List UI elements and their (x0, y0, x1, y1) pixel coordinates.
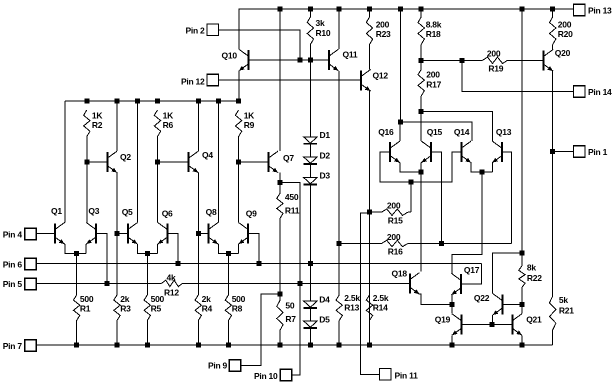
junction R16 left node (337, 241, 342, 246)
resistor R3 2k (114, 295, 120, 321)
junction D5 ground (308, 342, 313, 347)
wire Q16 emitter (400, 163, 421, 172)
resistor R12 4k (162, 280, 183, 286)
transistor Q19 (452, 314, 462, 336)
resistor R16 200 (382, 240, 408, 246)
junction Q5/Q6 emitters (145, 251, 150, 256)
wire R16 node to R13 (338, 244, 340, 296)
junction R4 ground (196, 342, 201, 347)
junction Q5 base node (115, 231, 120, 236)
diode D2 (304, 157, 318, 164)
wire D2-D3 (309, 164, 311, 178)
wire Pin 6 net (36, 263, 481, 265)
junction Q19 emitter ground (449, 342, 454, 347)
wire R2 bottom (86, 137, 88, 162)
wire Q3 emitter drop (85, 244, 87, 254)
junction Q2 base node (84, 159, 89, 164)
wire Q10 collector riser (238, 9, 240, 49)
transistor Q18 (410, 273, 420, 295)
wire R7 top (279, 294, 281, 301)
junction R20 top (550, 7, 555, 12)
wire Pin11 riser to R15 node (361, 213, 380, 374)
wire Q10 emitter drop (238, 71, 240, 101)
wire top supply rail (239, 8, 574, 10)
svg-text:R15: R15 (388, 216, 403, 226)
svg-text:R4: R4 (202, 304, 213, 314)
junction Pin9/R7 node (277, 291, 282, 296)
resistor R10 3k (307, 17, 313, 45)
wire bottom ground rail (37, 344, 553, 346)
junction Pin1/Q20 emitter (550, 149, 555, 154)
svg-text:Q17: Q17 (464, 265, 480, 275)
junction R22/Q22 base/Q21 collector (519, 302, 524, 307)
wire Q16-Q14 base bracket (380, 152, 461, 182)
junction R23 top (367, 7, 372, 12)
wire Pin10 riser (292, 283, 300, 375)
svg-text:Q14: Q14 (454, 127, 470, 137)
wire Q6 collector riser (157, 162, 159, 223)
wire Q22 emitter drop (491, 315, 493, 324)
wire mirror feed drop (399, 9, 401, 122)
wire R15 left stub (370, 211, 382, 213)
wire R10 top stub (309, 9, 311, 17)
pin box Pin 1 (574, 146, 586, 158)
transistor Q6 (158, 223, 168, 245)
junction base bracket / R15 (408, 179, 413, 184)
pin box Pin 13 (574, 4, 586, 16)
svg-text:200: 200 (387, 201, 401, 211)
svg-text:R14: R14 (373, 303, 388, 313)
svg-text:D1: D1 (320, 130, 331, 140)
diode D5 (304, 321, 318, 328)
wire R4 bottom (197, 321, 199, 345)
junction Q4 collector rail (196, 98, 201, 103)
wire R15 right stub (408, 211, 411, 213)
wire R20 top stub (552, 9, 554, 17)
wire R18 node to R19 (421, 59, 482, 61)
wire R7 bottom (279, 331, 281, 345)
junction Q21 emitter ground (519, 342, 524, 347)
wire Q17 base to Pin6 net (461, 264, 481, 285)
svg-text:R23: R23 (376, 29, 391, 39)
junction Q1/Q3 emitters (74, 251, 79, 256)
svg-text:Q21: Q21 (526, 314, 542, 324)
wire R8 bottom (227, 321, 229, 345)
svg-text:Pin 6: Pin 6 (3, 259, 23, 269)
resistor R2 1K (84, 110, 90, 137)
transistor Q10 (239, 49, 249, 71)
svg-text:R9: R9 (244, 120, 255, 130)
wire Q1/Q3 emitter bowl (65, 244, 86, 254)
wire R17 bottom stub (420, 96, 422, 112)
junction R2 top (84, 98, 89, 103)
svg-text:Q6: Q6 (162, 209, 173, 219)
resistor R21 5k (550, 296, 556, 330)
wire Q19-Q21 base line (462, 324, 513, 326)
svg-text:1K: 1K (163, 111, 174, 121)
transistor Q4 (189, 151, 199, 173)
wire Q21 emitter to ground (521, 335, 523, 345)
svg-text:D5: D5 (319, 314, 330, 324)
svg-text:500: 500 (151, 294, 165, 304)
wire to Q22 collector (492, 253, 522, 294)
junction diode chain on Pin6 net (308, 261, 313, 266)
wire Q15 collector riser (420, 112, 422, 142)
svg-text:Pin 9: Pin 9 (208, 360, 228, 370)
junction Q15 base on R16 line (439, 241, 444, 246)
diode D3 (304, 178, 318, 185)
svg-text:R12: R12 (164, 288, 179, 298)
resistor R17 200 (418, 70, 424, 97)
junction Q7 base node (236, 159, 241, 164)
wire Q2 base (87, 161, 108, 163)
junction Q16/Q15 emitters (419, 170, 424, 175)
wire R6 bottom (157, 137, 159, 162)
svg-text:8k: 8k (527, 263, 536, 273)
svg-text:Pin 2: Pin 2 (185, 26, 205, 36)
svg-text:Pin 1: Pin 1 (588, 147, 608, 157)
svg-text:200: 200 (558, 19, 572, 29)
wire R18 top stub (420, 9, 422, 17)
resistor R23 200 (366, 17, 372, 45)
pin box Pin 2 (207, 24, 219, 36)
transistor Q16 (390, 141, 400, 163)
junction Q2 collector rail (115, 98, 120, 103)
pin box Pin 14 (574, 86, 586, 98)
svg-text:R5: R5 (151, 304, 162, 314)
wire R20 to Q20 collector (552, 45, 554, 50)
junction Q8/Q9 emitters (226, 251, 231, 256)
svg-text:Pin 5: Pin 5 (3, 279, 23, 289)
wire Q13 base drop (502, 152, 512, 244)
wire Q5 base (117, 232, 128, 234)
wire Pin14 to R19 node (462, 60, 574, 91)
junction Q5 collector rail (135, 98, 140, 103)
wire Q7 emitter (279, 173, 281, 183)
wire Q22 base to R22 node (502, 303, 522, 305)
junction Q11 collector rail (337, 7, 342, 12)
wire Q16 collector riser (399, 122, 401, 141)
wire Q19 emitter to ground (451, 335, 453, 345)
svg-text:3k: 3k (316, 18, 325, 28)
resistor R15 200 (382, 209, 408, 215)
wire R17 top stub (420, 60, 422, 69)
wire R15 right riser (410, 182, 412, 212)
junction Q6 base on Pin6 (175, 261, 180, 266)
svg-text:Q19: Q19 (435, 314, 451, 324)
svg-text:Q9: Q9 (246, 209, 257, 219)
svg-text:Q12: Q12 (373, 71, 389, 81)
svg-text:Q16: Q16 (378, 127, 394, 137)
wire R11 to R7 (279, 219, 281, 294)
svg-text:450: 450 (285, 192, 299, 202)
svg-text:D2: D2 (320, 150, 331, 160)
svg-text:Q10: Q10 (222, 51, 238, 61)
svg-text:200: 200 (487, 49, 501, 59)
svg-text:Q3: Q3 (88, 206, 99, 216)
svg-text:R21: R21 (559, 305, 574, 315)
transistor Q11 (329, 49, 339, 71)
wire Q2 emitter to R3 (116, 233, 118, 295)
svg-text:50: 50 (285, 301, 294, 311)
wire to R1 (76, 254, 78, 295)
svg-text:Pin 12: Pin 12 (181, 77, 205, 87)
wire Q4 emitter to R4 (197, 233, 199, 295)
junction Q14/Q13 emitters (480, 170, 485, 175)
wire Q4 emitter drop (197, 173, 199, 234)
wire D1-D2 (309, 144, 311, 157)
wire R9 bottom (238, 137, 240, 162)
svg-text:Q13: Q13 (496, 127, 512, 137)
svg-text:Pin 13: Pin 13 (588, 6, 612, 16)
svg-text:Q2: Q2 (120, 152, 131, 162)
svg-text:Q5: Q5 (122, 207, 133, 217)
pin box Pin 4 (25, 228, 37, 240)
pin box Pin 11 (380, 369, 392, 381)
transistor Q2 (107, 151, 117, 173)
wire Q11 emitter long drop (338, 71, 340, 244)
svg-text:Pin 11: Pin 11 (395, 370, 419, 380)
junction R14 ground (367, 342, 372, 347)
wire to R14 (369, 212, 371, 345)
svg-text:R8: R8 (232, 304, 243, 314)
resistor R7 50 (277, 301, 283, 331)
wire Pin2 to Q10/Q11 base (219, 30, 300, 60)
svg-text:R17: R17 (426, 80, 441, 90)
wire Q4 base (158, 161, 189, 163)
svg-text:R20: R20 (558, 29, 573, 39)
wire Q9 base to Pin6 net (248, 233, 259, 263)
svg-text:R6: R6 (163, 120, 174, 130)
svg-text:500: 500 (80, 294, 94, 304)
wire Q15-Q13 collector line (421, 112, 492, 142)
junction R9 top / Q10 emitter (236, 98, 241, 103)
svg-text:R13: R13 (344, 303, 359, 313)
svg-text:R19: R19 (488, 64, 503, 74)
svg-text:R7: R7 (285, 314, 296, 324)
svg-text:R18: R18 (426, 29, 441, 39)
wire Q9 collector riser (238, 162, 240, 223)
transistor Q3 (86, 223, 96, 245)
wire R21 bottom (552, 330, 554, 345)
transistor Q20 (543, 50, 553, 72)
wire Pin 5 net right to Q18 base (183, 282, 410, 284)
wire Q16-Q14 collector line (400, 122, 472, 141)
wire to D1 (309, 60, 311, 137)
svg-text:D4: D4 (319, 294, 330, 304)
wire R16 left stub (339, 243, 381, 245)
pin box Pin 12 (207, 74, 219, 86)
wire to R5 (146, 254, 148, 295)
wire Q7 collector riser to top rail (279, 9, 281, 151)
wire Q20 emitter drop (552, 71, 554, 296)
wire Q9 emitter drop (238, 244, 240, 254)
junction rail drop top (519, 7, 524, 12)
svg-text:Pin 10: Pin 10 (254, 371, 278, 381)
junction R7 ground (277, 342, 282, 347)
wire to D4 (309, 264, 311, 301)
transistor Q13 (492, 141, 502, 163)
svg-text:8.8k: 8.8k (426, 19, 442, 29)
junction R8 ground (226, 342, 231, 347)
junction Q7 collector top rail (277, 7, 282, 12)
transistor Q5 (128, 223, 138, 245)
junction R5 ground (145, 342, 150, 347)
svg-text:Q20: Q20 (555, 48, 571, 58)
transistor Q22 (493, 294, 503, 316)
svg-text:Q8: Q8 (206, 207, 217, 217)
svg-text:Q4: Q4 (202, 150, 213, 160)
junction Q9 base on Pin6 (256, 261, 261, 266)
pin box Pin 10 (280, 369, 292, 381)
wire Q6 base to Pin6 net (167, 233, 178, 263)
resistor R18 8.8k (418, 17, 424, 45)
wire Pin4 to Q1 base (36, 232, 55, 234)
resistor R22 8k (519, 266, 525, 288)
wire Q1 collector riser (64, 101, 66, 223)
resistor R11 450 (277, 194, 283, 219)
junction Q8 base node (196, 231, 201, 236)
pin box Pin 9 (229, 360, 241, 372)
wire R10 bottom stub (309, 45, 311, 61)
pin box Pin 5 (25, 278, 37, 290)
svg-text:5k: 5k (559, 295, 568, 305)
svg-text:2.5k: 2.5k (373, 293, 389, 303)
junction R3 ground (115, 342, 120, 347)
resistor R4 2k (195, 295, 201, 321)
svg-text:Pin 4: Pin 4 (3, 229, 23, 239)
wire Q17 emitter drop (451, 295, 453, 305)
wire Q4 collector riser (197, 101, 199, 151)
svg-text:D3: D3 (320, 171, 331, 181)
junction R22 top node (519, 250, 524, 255)
junction Pin2 on base line (297, 58, 302, 63)
wire R16 right to Q13 base (408, 243, 512, 245)
junction R15 left node (367, 210, 372, 215)
resistor R13 2.5k (336, 295, 342, 321)
junction Pin10/Q7 emitter on Pin5 net (298, 281, 303, 286)
wire emitters to Q18 collector (420, 172, 422, 272)
transistor Q14 (461, 141, 471, 163)
wire Q11 collector riser (338, 9, 340, 49)
wire R3 bottom (116, 321, 118, 345)
wire Q13 emitter (491, 163, 493, 173)
wire Q6 emitter drop (157, 244, 159, 254)
svg-text:1K: 1K (92, 111, 103, 121)
svg-text:Q18: Q18 (392, 269, 408, 279)
junction R13 ground (337, 342, 342, 347)
junction R18 top (419, 7, 424, 12)
svg-text:R22: R22 (527, 273, 542, 283)
diode D4 (304, 301, 318, 308)
resistor R19 200 (483, 57, 508, 63)
svg-text:2k: 2k (202, 294, 211, 304)
svg-text:1K: 1K (244, 111, 255, 121)
wire Q8/Q9 emitter bowl (218, 244, 238, 254)
svg-text:Q11: Q11 (343, 50, 358, 60)
transistor Q21 (512, 314, 522, 336)
transistor Q7 (268, 151, 278, 173)
wire Q5/Q6 emitter bowl (138, 244, 158, 254)
junction mirror feed top (398, 7, 403, 12)
wire Q7 base (239, 161, 269, 163)
wire Q12 emitter drop (369, 91, 371, 212)
wire Q8 collector riser (217, 101, 219, 223)
wire Q2 emitter drop (116, 173, 118, 234)
junction Q7 emitter node (277, 180, 282, 185)
junction R17/Q15 collector node (419, 109, 424, 114)
svg-text:Q15: Q15 (427, 127, 443, 137)
wire R22 top stub (521, 253, 523, 266)
junction Q8 collector rail (216, 98, 221, 103)
resistor R8 500 (225, 295, 231, 321)
pin box Pin 6 (25, 258, 37, 270)
transistor Q12 (361, 70, 371, 92)
wire Q14 emitter (471, 163, 492, 173)
junction R10 top (308, 7, 313, 12)
svg-text:500: 500 (232, 294, 246, 304)
junction R6 top (155, 98, 160, 103)
wire D4-D5 (309, 308, 311, 321)
transistor Q1 (55, 223, 65, 245)
svg-text:200: 200 (426, 70, 440, 80)
wire Q3 collector riser (86, 162, 88, 223)
wire Q10-Q11 base line (249, 59, 329, 61)
junction Q16 collector node (398, 119, 403, 124)
svg-text:R1: R1 (80, 304, 91, 314)
wire Q15 base drop to R16 (431, 152, 441, 244)
wire Q18 emitter to node (420, 294, 452, 304)
junction R18/R17 node (419, 58, 424, 63)
svg-text:200: 200 (387, 232, 401, 242)
wire R19 to Q20 base (508, 59, 544, 61)
svg-text:Q22: Q22 (474, 293, 490, 303)
svg-text:4k: 4k (167, 273, 176, 283)
wire R13 bottom (338, 321, 340, 345)
wire rail drop to R22 node (521, 9, 523, 253)
wire R11 top (279, 182, 281, 193)
wire emitters to Q17 collector (452, 172, 482, 273)
wire Pin9 to R11/R7 node (241, 294, 280, 366)
wire R18 bottom stub (420, 45, 422, 61)
transistor Q15 (421, 141, 431, 163)
wire R1 bottom (76, 321, 78, 345)
resistor R20 200 (550, 17, 556, 45)
svg-text:R10: R10 (316, 28, 331, 38)
transistor Q9 (239, 223, 249, 245)
transistor Q8 (208, 223, 218, 245)
junction R1 ground (74, 342, 79, 347)
junction Q4 base node (155, 159, 160, 164)
wire Q21 collector riser (521, 304, 523, 313)
svg-text:R3: R3 (120, 304, 131, 314)
wire R14 bottom (369, 321, 371, 345)
diode D1 (304, 137, 318, 144)
wire R5 bottom (146, 321, 148, 345)
svg-text:Pin 14: Pin 14 (588, 87, 612, 97)
resistor R5 500 (144, 295, 150, 321)
wire Q17 collector riser (451, 255, 453, 274)
resistor R1 500 (73, 295, 79, 321)
svg-text:Q1: Q1 (51, 206, 62, 216)
resistor R14 2.5k (366, 295, 372, 321)
svg-text:R16: R16 (388, 247, 403, 257)
wire Q3 base to Pin5 net (96, 233, 107, 283)
wire Q1 collector riser (joins rail corner) (64, 101, 66, 223)
wire Pin1 to Q20 emitter (553, 151, 574, 153)
wire to R8 (227, 254, 229, 295)
pin box Pin 7 (25, 340, 37, 352)
